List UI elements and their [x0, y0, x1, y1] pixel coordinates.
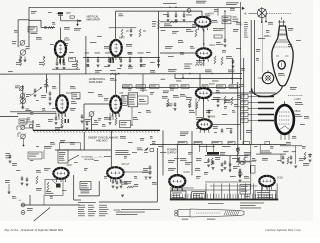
svg-text:Fig. 22-04.—Schematic of Supre: Fig. 22-04.—Schematic of Supreme Model 6… [4, 228, 64, 232]
svg-text:Courtesy Supreme Dist. Corp.: Courtesy Supreme Dist. Corp. [265, 228, 301, 232]
